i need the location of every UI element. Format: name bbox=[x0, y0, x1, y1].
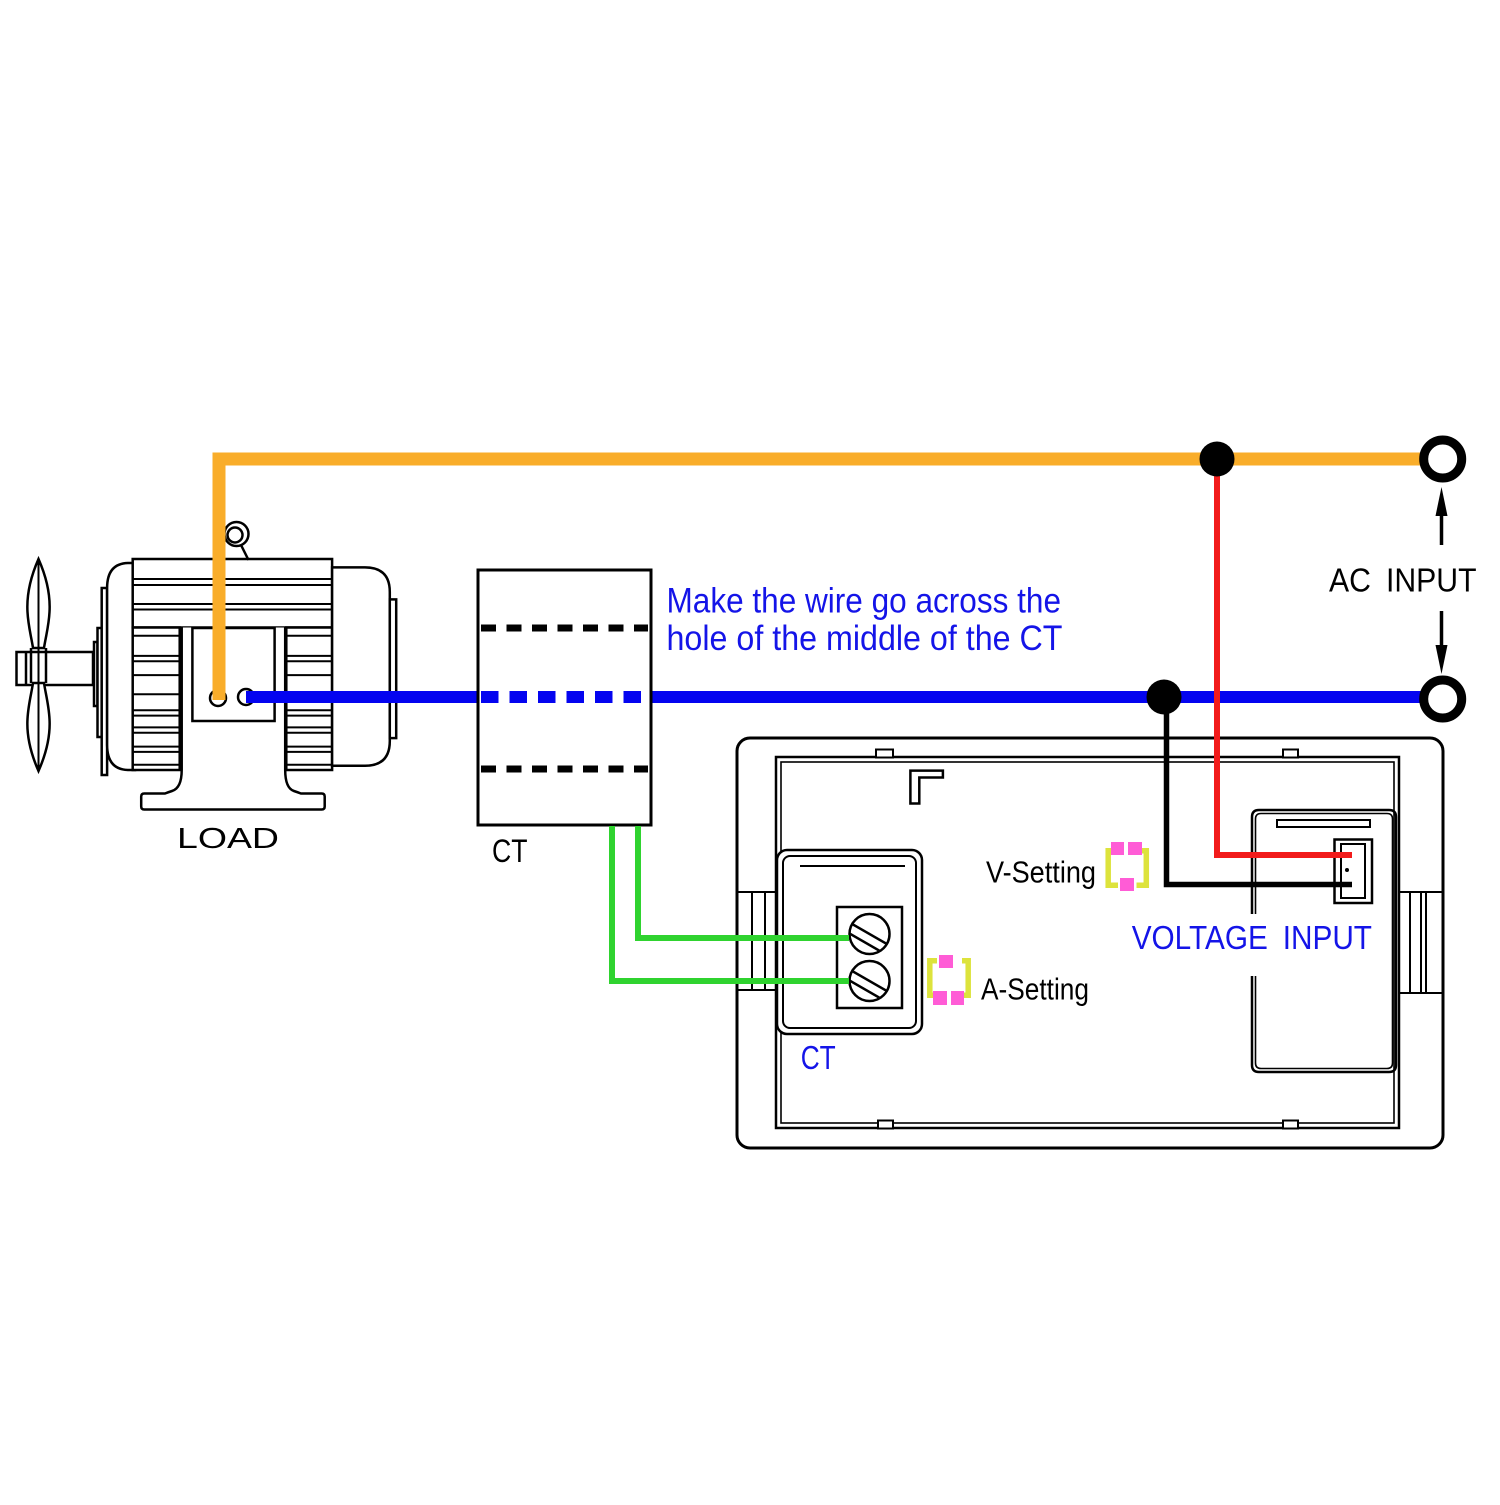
voltage input module frame bbox=[1252, 810, 1396, 1072]
svg-text:Make the wire go across the: Make the wire go across the bbox=[667, 581, 1062, 620]
fan blade upper bbox=[27, 559, 49, 648]
svg-text:CT: CT bbox=[801, 1040, 836, 1077]
svg-text:VOLTAGE INPUT: VOLTAGE INPUT bbox=[1132, 919, 1372, 956]
corner mark bbox=[910, 771, 943, 804]
terminal ring neutral bbox=[1424, 680, 1462, 718]
wire black voltage tap bbox=[1167, 697, 1353, 885]
A-Setting icon bbox=[930, 955, 968, 1005]
bottom tab left bbox=[878, 1121, 893, 1129]
CT sensor dashed box bbox=[478, 570, 651, 825]
AC input terminals bbox=[1424, 440, 1462, 718]
meter box bbox=[737, 738, 1443, 1148]
front housing bbox=[107, 563, 135, 770]
motor LOAD bbox=[17, 522, 397, 810]
voltage connector bbox=[1335, 840, 1373, 904]
top tab right bbox=[1283, 750, 1298, 758]
node junction orange-red bbox=[1200, 442, 1235, 477]
wire red voltage tap bbox=[1217, 459, 1352, 855]
meter outer case bbox=[737, 738, 1443, 1148]
shaft collar large bbox=[98, 628, 102, 737]
svg-text:V-Setting: V-Setting bbox=[986, 855, 1096, 890]
svg-text:AC INPUT: AC INPUT bbox=[1329, 562, 1477, 599]
body top band bbox=[133, 559, 332, 628]
arrow up bbox=[1440, 514, 1444, 545]
svg-text:hole of the middle of the CT: hole of the middle of the CT bbox=[667, 619, 1063, 658]
node junction blue-black bbox=[1147, 680, 1182, 715]
fan blade lower bbox=[27, 683, 49, 771]
terminal right bbox=[238, 689, 254, 705]
voltage module top bar bbox=[1277, 820, 1370, 827]
wire green CT secondary pair bbox=[612, 826, 849, 981]
top tab left bbox=[876, 750, 893, 758]
svg-text:LOAD: LOAD bbox=[177, 823, 279, 855]
end bell rear plate bbox=[390, 599, 396, 738]
CT upper dashed line bbox=[481, 625, 648, 632]
meter inner panel bbox=[776, 757, 1399, 1128]
right side channel bbox=[1399, 892, 1443, 993]
arrow down bbox=[1440, 611, 1444, 647]
bottom tab right bbox=[1283, 1121, 1298, 1129]
right fin column bbox=[286, 628, 332, 771]
end bell bbox=[332, 567, 390, 765]
wire blue dashed through CT bbox=[481, 691, 651, 703]
shaft collar small bbox=[94, 642, 98, 706]
terminal ring live bbox=[1424, 440, 1462, 478]
pedestal and foot bbox=[141, 628, 325, 810]
green wire to A screw 2 bbox=[612, 826, 849, 981]
CT lower dashed line bbox=[481, 766, 648, 773]
svg-text:A-Setting: A-Setting bbox=[981, 972, 1089, 1007]
wire blue neutral from LOAD to AC input bbox=[246, 691, 1424, 703]
wire orange live from LOAD to AC input bbox=[219, 459, 1424, 700]
fan hub stem bbox=[30, 648, 33, 683]
left side channel bbox=[737, 892, 776, 990]
motor shaft bbox=[17, 652, 94, 685]
svg-text:CT: CT bbox=[492, 833, 528, 869]
green wire to A screw 1 bbox=[638, 826, 849, 938]
CT terminal block bbox=[777, 850, 922, 1034]
screw plate bbox=[837, 907, 902, 1008]
fan center line bbox=[38, 561, 40, 769]
left fin column bbox=[133, 628, 180, 771]
eye bolt bbox=[225, 522, 249, 546]
terminal left bbox=[210, 690, 226, 706]
junction box bbox=[192, 628, 274, 721]
front bearing plate bbox=[102, 588, 107, 775]
V-Setting icon bbox=[1108, 842, 1146, 891]
